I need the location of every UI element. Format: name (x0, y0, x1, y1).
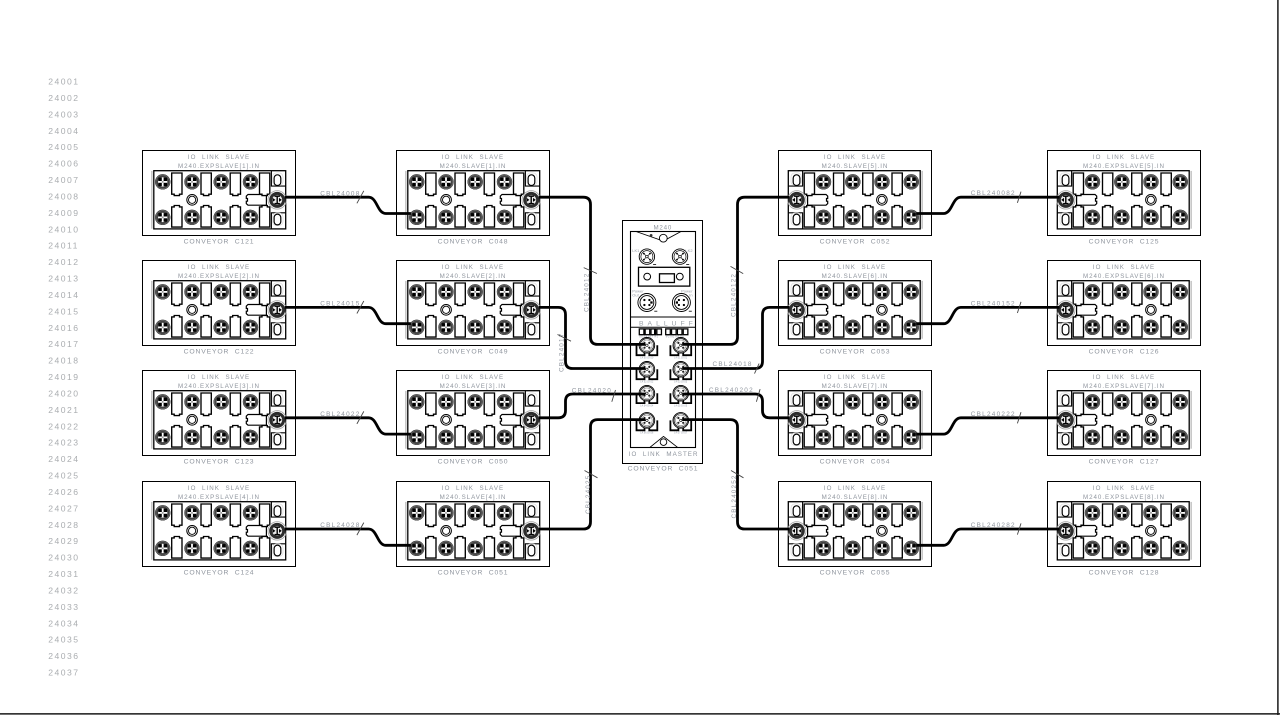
svg-text:24020: 24020 (48, 388, 79, 398)
svg-text:24037: 24037 (48, 668, 79, 678)
svg-text:CBL240122: CBL240122 (730, 273, 737, 317)
svg-text:CBL24012: CBL24012 (583, 273, 590, 312)
svg-text:CBL24020: CBL24020 (572, 387, 612, 394)
master bottom notch (650, 436, 679, 447)
svg-text:CONVEYOR C051: CONVEYOR C051 (438, 569, 509, 576)
svg-text:M240.SLAVE[6].IN: M240.SLAVE[6].IN (822, 273, 889, 280)
svg-text:IO LINK SLAVE: IO LINK SLAVE (1093, 154, 1155, 161)
svg-text:L4.00 DI.00: L4.00 DI.00 (640, 358, 654, 360)
cable CBL240202 : master port 7 to C054 (682, 387, 789, 418)
cable CBL240252 : master port 8 to C055 (682, 420, 789, 529)
svg-text:IO LINK SLAVE: IO LINK SLAVE (824, 485, 886, 492)
cable CBL24018 : master port 6 to C053 (682, 307, 789, 373)
slave body: 8 x M12 sensor ports, mounting hole, label plate, IO-Link out connector (397, 151, 550, 236)
IO-Link slave module C123 (M240.EXPSLAVE[3].IN) (143, 371, 296, 466)
svg-text:M240.EXPSLAVE[7].IN: M240.EXPSLAVE[7].IN (1083, 383, 1165, 390)
svg-text:24005: 24005 (48, 142, 79, 152)
svg-text:LK2: LK2 (685, 248, 692, 253)
master body with LK1/LK2 ports, display, Power Out/In connectors, BALLUFF logo, status LEDs (623, 221, 703, 464)
svg-text:24018: 24018 (48, 356, 79, 366)
svg-text:L4.06 DI.06: L4.06 DI.06 (640, 433, 654, 435)
cable CBL240282 : C055 to C128 (916, 522, 1059, 545)
svg-text:24007: 24007 (48, 175, 79, 185)
master IO-Link port 4 (670, 362, 691, 380)
svg-text:24022: 24022 (48, 421, 79, 431)
cable CBL240082 : C052 to C125 (916, 190, 1059, 213)
svg-text:24008: 24008 (48, 191, 79, 201)
svg-text:IO LINK SLAVE: IO LINK SLAVE (442, 154, 504, 161)
svg-text:CBL24022: CBL24022 (320, 411, 360, 418)
svg-text:L4.03 DI.03: L4.03 DI.03 (674, 382, 688, 384)
svg-text:Out: Out (632, 293, 639, 298)
svg-text:CONVEYOR C124: CONVEYOR C124 (184, 569, 255, 576)
svg-text:CONVEYOR C053: CONVEYOR C053 (820, 348, 891, 355)
svg-text:M240.EXPSLAVE[3].IN: M240.EXPSLAVE[3].IN (178, 383, 260, 390)
svg-text:24003: 24003 (48, 109, 79, 119)
svg-text:IO LINK SLAVE: IO LINK SLAVE (188, 154, 250, 161)
svg-text:CBL240282: CBL240282 (971, 522, 1016, 529)
svg-text:CONVEYOR C050: CONVEYOR C050 (438, 458, 509, 465)
svg-text:LK1: LK1 (632, 248, 639, 253)
svg-text:IO LINK SLAVE: IO LINK SLAVE (188, 374, 250, 381)
svg-text:24009: 24009 (48, 208, 79, 218)
svg-text:24024: 24024 (48, 454, 79, 464)
svg-text:CONVEYOR C126: CONVEYOR C126 (1089, 348, 1160, 355)
IO-Link slave module C124 (M240.EXPSLAVE[4].IN) (143, 482, 296, 577)
IO-Link master M240 (BALLUFF) CONVEYOR C051 (623, 221, 703, 473)
svg-text:In: In (689, 293, 692, 298)
slave body: 8 x M12 sensor ports, mounting hole, label plate, IO-Link out connector (779, 151, 932, 236)
svg-text:24036: 24036 (48, 651, 79, 661)
slave body: 8 x M12 sensor ports, mounting hole, label plate, IO-Link out connector (143, 151, 296, 236)
svg-text:24028: 24028 (48, 520, 79, 530)
svg-text:M240.EXPSLAVE[5].IN: M240.EXPSLAVE[5].IN (1083, 163, 1165, 170)
svg-text:24025: 24025 (48, 471, 79, 481)
svg-text:M240.SLAVE[5].IN: M240.SLAVE[5].IN (822, 163, 889, 170)
cable CBL24017 : C049 to master port 2 (539, 307, 646, 372)
svg-text:24006: 24006 (48, 159, 79, 169)
slave body: 8 x M12 sensor ports, mounting hole, label plate, IO-Link out connector (143, 261, 296, 346)
cable CBL240222 : C054 to C127 (916, 411, 1059, 434)
cable CBL24015 : C122 to C049 (285, 301, 411, 324)
svg-text:IO LINK SLAVE: IO LINK SLAVE (824, 264, 886, 271)
svg-text:IO LINK SLAVE: IO LINK SLAVE (824, 154, 886, 161)
svg-text:CONVEYOR C125: CONVEYOR C125 (1089, 238, 1160, 245)
slave body: 8 x M12 sensor ports, mounting hole, label plate, IO-Link out connector (143, 371, 296, 456)
svg-text:IO LINK SLAVE: IO LINK SLAVE (188, 485, 250, 492)
svg-text:M240.EXPSLAVE[1].IN: M240.EXPSLAVE[1].IN (178, 163, 260, 170)
svg-text:M240.SLAVE[1].IN: M240.SLAVE[1].IN (440, 163, 507, 170)
svg-text:CONVEYOR C121: CONVEYOR C121 (184, 238, 255, 245)
svg-text:24027: 24027 (48, 503, 79, 513)
svg-text:IO LINK SLAVE: IO LINK SLAVE (1093, 264, 1155, 271)
svg-text:CBL24017: CBL24017 (559, 333, 566, 372)
svg-text:M240: M240 (653, 225, 672, 232)
svg-text:CONVEYOR C128: CONVEYOR C128 (1089, 569, 1160, 576)
svg-text:CONVEYOR C122: CONVEYOR C122 (184, 348, 255, 355)
cable CBL24020 : C050 to master port 3 (539, 387, 646, 418)
IO-Link slave module C125 (M240.EXPSLAVE[5].IN) (1048, 151, 1201, 246)
slave body: 8 x M12 sensor ports, mounting hole, label plate, IO-Link out connector (779, 482, 932, 567)
cable CBL24012 : C048 to master port 1 (539, 197, 646, 344)
cable CBL24025 : C051 to master port 4 (539, 420, 646, 529)
svg-text:24029: 24029 (48, 536, 79, 546)
IO-Link slave module C051 (M240.SLAVE[4].IN) (397, 482, 550, 577)
svg-text:M240.EXPSLAVE[6].IN: M240.EXPSLAVE[6].IN (1083, 273, 1165, 280)
svg-text:CONVEYOR C048: CONVEYOR C048 (438, 238, 509, 245)
svg-text:24023: 24023 (48, 438, 79, 448)
svg-text:24001: 24001 (48, 77, 79, 87)
IO-Link slave module C127 (M240.EXPSLAVE[7].IN) (1048, 371, 1201, 466)
svg-text:24032: 24032 (48, 585, 79, 595)
wire number column 24001-24037 (48, 77, 79, 678)
svg-text:24016: 24016 (48, 323, 79, 333)
svg-text:24021: 24021 (48, 405, 79, 415)
master IO-Link port 5 (637, 385, 658, 403)
master IO-Link port 2 (670, 338, 691, 356)
IO-Link slave module C054 (M240.SLAVE[7].IN) (779, 371, 932, 466)
cable CBL240122 : master port 5 to C052 (682, 197, 789, 344)
svg-text:CBL240152: CBL240152 (971, 300, 1016, 307)
svg-text:24012: 24012 (48, 257, 79, 267)
svg-text:CBL240082: CBL240082 (971, 190, 1016, 197)
svg-text:IO LINK SLAVE: IO LINK SLAVE (1093, 374, 1155, 381)
svg-text:L4.02 DI.02: L4.02 DI.02 (640, 382, 654, 384)
svg-text:CONVEYOR C049: CONVEYOR C049 (438, 348, 509, 355)
slave body: 8 x M12 sensor ports, mounting hole, label plate, IO-Link out connector (1048, 261, 1201, 346)
svg-text:24019: 24019 (48, 372, 79, 382)
svg-text:CBL240252: CBL240252 (731, 474, 738, 518)
svg-text:IO LINK SLAVE: IO LINK SLAVE (824, 374, 886, 381)
svg-text:M240.SLAVE[8].IN: M240.SLAVE[8].IN (822, 494, 889, 501)
IO-Link slave module C052 (M240.SLAVE[5].IN) (779, 151, 932, 246)
svg-text:24014: 24014 (48, 290, 79, 300)
svg-text:CONVEYOR C054: CONVEYOR C054 (820, 458, 891, 465)
svg-text:CBL240202: CBL240202 (709, 387, 754, 394)
svg-text:IO LINK SLAVE: IO LINK SLAVE (1093, 485, 1155, 492)
svg-text:M240.EXPSLAVE[8].IN: M240.EXPSLAVE[8].IN (1083, 494, 1165, 501)
svg-text:24002: 24002 (48, 93, 79, 103)
svg-text:IO LINK MASTER: IO LINK MASTER (629, 451, 699, 458)
slave body: 8 x M12 sensor ports, mounting hole, label plate, IO-Link out connector (1048, 482, 1201, 567)
IO-Link slave module C049 (M240.SLAVE[2].IN) (397, 261, 550, 356)
svg-text:IO LINK SLAVE: IO LINK SLAVE (442, 264, 504, 271)
cable CBL240152 : C053 to C126 (916, 300, 1059, 323)
svg-text:IO LINK SLAVE: IO LINK SLAVE (442, 374, 504, 381)
svg-text:24010: 24010 (48, 224, 79, 234)
svg-text:24034: 24034 (48, 618, 79, 628)
IO-Link slave module C122 (M240.EXPSLAVE[2].IN) (143, 261, 296, 356)
svg-text:CBL24018: CBL24018 (713, 361, 753, 368)
svg-text:L4.07 DI.07: L4.07 DI.07 (674, 433, 688, 435)
svg-text:L4.04 DI.04: L4.04 DI.04 (640, 406, 654, 408)
IO-Link slave module C055 (M240.SLAVE[8].IN) (779, 482, 932, 577)
master IO-Link port 6 (670, 385, 691, 403)
cable CBL24028 : C124 to C051 (285, 522, 411, 545)
slave body: 8 x M12 sensor ports, mounting hole, label plate, IO-Link out connector (397, 261, 550, 346)
svg-text:CONVEYOR C127: CONVEYOR C127 (1089, 458, 1160, 465)
IO-Link slave module C128 (M240.EXPSLAVE[8].IN) (1048, 482, 1201, 577)
cable CBL24022 : C123 to C050 (285, 411, 411, 434)
IO-Link slave module C121 (M240.EXPSLAVE[1].IN) (143, 151, 296, 246)
master IO-Link port 3 (637, 362, 658, 380)
svg-text:M240.SLAVE[3].IN: M240.SLAVE[3].IN (440, 383, 507, 390)
svg-text:L4.05 DI.05: L4.05 DI.05 (674, 406, 688, 408)
IO-Link slave module C053 (M240.SLAVE[6].IN) (779, 261, 932, 356)
master IO-Link port 1 (637, 338, 658, 356)
svg-text:CONVEYOR C052: CONVEYOR C052 (820, 238, 891, 245)
slave body: 8 x M12 sensor ports, mounting hole, label plate, IO-Link out connector (779, 261, 932, 346)
IO-Link slave module C050 (M240.SLAVE[3].IN) (397, 371, 550, 466)
svg-text:CBL24025: CBL24025 (585, 475, 592, 514)
svg-text:M240.SLAVE[4].IN: M240.SLAVE[4].IN (440, 494, 507, 501)
svg-text:M240.SLAVE[7].IN: M240.SLAVE[7].IN (822, 383, 889, 390)
svg-text:M240.EXPSLAVE[4].IN: M240.EXPSLAVE[4].IN (178, 494, 260, 501)
master IO-Link port 7 (637, 413, 658, 431)
slave body: 8 x M12 sensor ports, mounting hole, label plate, IO-Link out connector (779, 371, 932, 456)
slave body: 8 x M12 sensor ports, mounting hole, label plate, IO-Link out connector (1048, 151, 1201, 236)
svg-text:CBL24015: CBL24015 (320, 301, 360, 308)
svg-text:CONVEYOR C123: CONVEYOR C123 (184, 458, 255, 465)
svg-text:24030: 24030 (48, 553, 79, 563)
svg-text:24015: 24015 (48, 306, 79, 316)
svg-text:24033: 24033 (48, 602, 79, 612)
svg-text:IO LINK SLAVE: IO LINK SLAVE (442, 485, 504, 492)
svg-text:CBL240222: CBL240222 (971, 411, 1016, 418)
svg-text:CONVEYOR C055: CONVEYOR C055 (820, 569, 891, 576)
slave body: 8 x M12 sensor ports, mounting hole, label plate, IO-Link out connector (397, 482, 550, 567)
svg-text:L4.01 DI.01: L4.01 DI.01 (674, 358, 688, 360)
svg-text:IO LINK SLAVE: IO LINK SLAVE (188, 264, 250, 271)
svg-text:24031: 24031 (48, 569, 79, 579)
svg-text:M240.EXPSLAVE[2].IN: M240.EXPSLAVE[2].IN (178, 273, 260, 280)
slave body: 8 x M12 sensor ports, mounting hole, label plate, IO-Link out connector (143, 482, 296, 567)
slave body: 8 x M12 sensor ports, mounting hole, label plate, IO-Link out connector (397, 371, 550, 456)
svg-text:24017: 24017 (48, 339, 79, 349)
svg-text:24026: 24026 (48, 487, 79, 497)
svg-text:24013: 24013 (48, 274, 79, 284)
slave body: 8 x M12 sensor ports, mounting hole, label plate, IO-Link out connector (1048, 371, 1201, 456)
svg-text:CBL24008: CBL24008 (320, 190, 360, 197)
IO-Link slave module C126 (M240.EXPSLAVE[6].IN) (1048, 261, 1201, 356)
svg-text:24004: 24004 (48, 126, 79, 136)
svg-text:24035: 24035 (48, 635, 79, 645)
svg-text:24011: 24011 (48, 241, 79, 251)
master IO-Link port 8 (670, 413, 691, 431)
IO-Link slave module C048 (M240.SLAVE[1].IN) (397, 151, 550, 246)
cable CBL24008 : C121 to C048 (285, 190, 411, 213)
svg-text:CONVEYOR C051: CONVEYOR C051 (628, 466, 699, 473)
svg-text:CBL24028: CBL24028 (320, 522, 360, 529)
svg-text:M240.SLAVE[2].IN: M240.SLAVE[2].IN (440, 273, 507, 280)
